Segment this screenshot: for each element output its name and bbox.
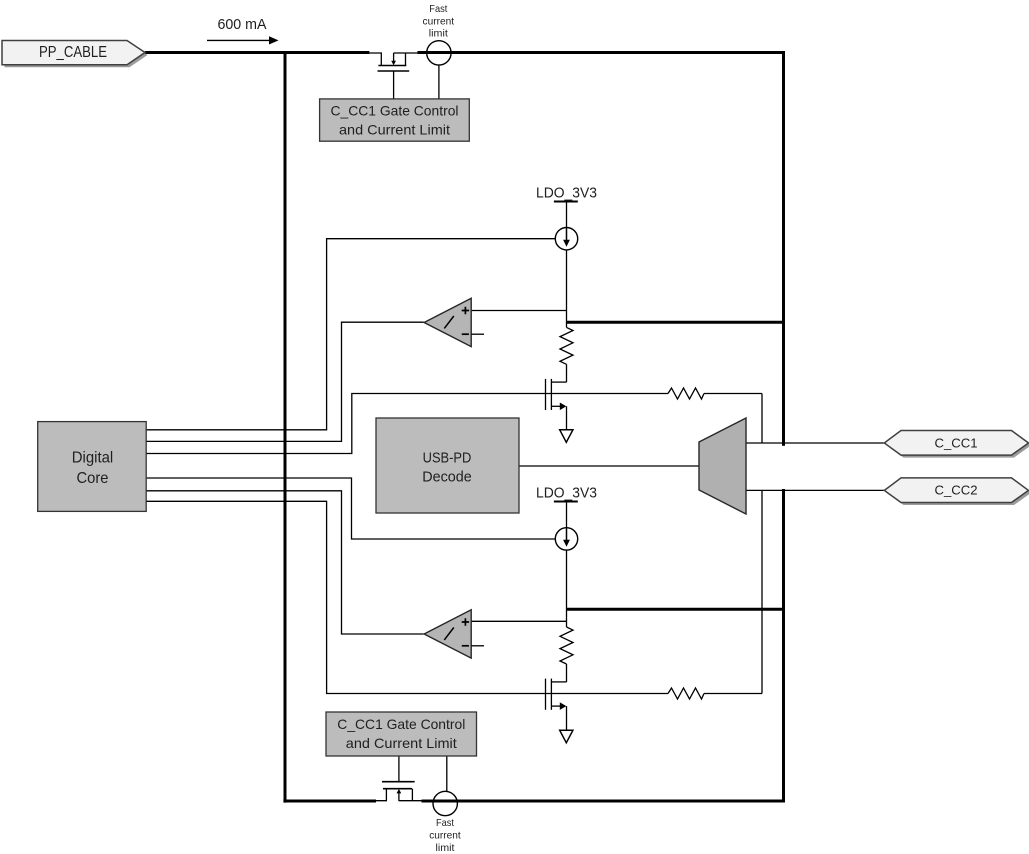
svg-text:600 mA: 600 mA xyxy=(218,16,267,33)
svg-text:Fast: Fast xyxy=(429,3,447,15)
svg-text:and Current Limit: and Current Limit xyxy=(339,122,450,138)
svg-text:limit: limit xyxy=(429,27,448,39)
svg-text:USB-PD: USB-PD xyxy=(423,450,472,466)
svg-text:C_CC1: C_CC1 xyxy=(935,435,978,450)
svg-text:Digital: Digital xyxy=(72,449,114,466)
svg-text:current: current xyxy=(429,829,461,841)
svg-text:C_CC1 Gate Control: C_CC1 Gate Control xyxy=(337,716,465,732)
svg-text:Core: Core xyxy=(77,470,109,487)
svg-text:and Current Limit: and Current Limit xyxy=(346,735,457,751)
svg-text:Decode: Decode xyxy=(422,470,472,486)
svg-text:LDO_3V3: LDO_3V3 xyxy=(536,484,597,501)
svg-text:PP_CABLE: PP_CABLE xyxy=(39,44,107,61)
svg-text:Fast: Fast xyxy=(436,817,454,829)
svg-text:limit: limit xyxy=(436,842,455,854)
svg-text:C_CC1 Gate Control: C_CC1 Gate Control xyxy=(331,103,459,119)
svg-text:LDO_3V3: LDO_3V3 xyxy=(536,184,597,201)
svg-text:current: current xyxy=(423,15,455,27)
svg-text:C_CC2: C_CC2 xyxy=(935,483,978,498)
